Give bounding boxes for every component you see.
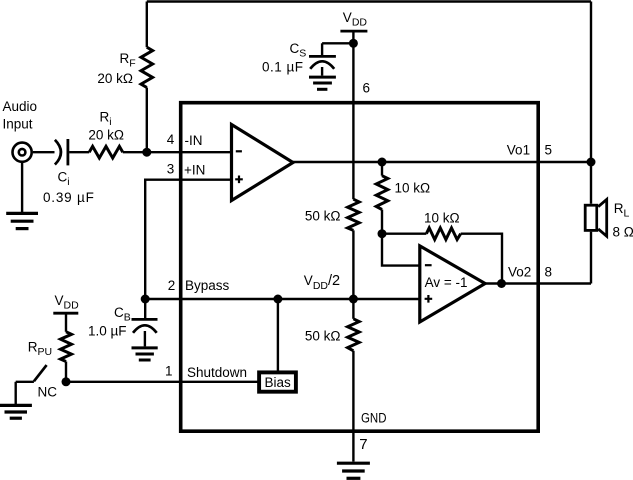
wire CS to ground [321, 67, 323, 76]
wire 10k vertical top lead [381, 162, 383, 176]
junction shutdown RPU [62, 377, 71, 386]
svg-text:Input: Input [3, 116, 33, 131]
junction Vo2 [497, 279, 506, 288]
wire 50k upper to VDD/2 node [352, 230, 354, 299]
op-amp U1 [232, 125, 294, 201]
wire audio input to Ci [33, 151, 55, 153]
wire CS tap from VDD node [322, 42, 353, 44]
wire RF bottom lead to input node [146, 88, 148, 153]
op-amp U2 Av=-1 [420, 246, 485, 322]
wire to op-amp U2 inverting input [382, 234, 420, 266]
svg-text:50 kΩ: 50 kΩ [305, 329, 341, 344]
svg-text:3: 3 [167, 162, 175, 177]
svg-text:Vo2: Vo2 [508, 264, 531, 279]
wire bypass line pin 2 [145, 298, 420, 300]
junction Vo1 right [587, 158, 596, 167]
wire CB to ground [144, 331, 146, 346]
svg-text:+IN: +IN [184, 162, 205, 177]
ground audio input [6, 213, 38, 228]
audio jack inner ring [19, 149, 26, 156]
wire +IN pin 3 to bypass node [145, 180, 231, 299]
wire Vo2 output pin 8 [485, 282, 591, 284]
resistor RPU [61, 332, 72, 362]
capacitor Ci straight plate [67, 139, 70, 165]
power VDD bar top [340, 30, 367, 33]
speaker RL body [585, 205, 597, 230]
svg-text:8 Ω: 8 Ω [613, 224, 633, 239]
svg-text:50 kΩ: 50 kΩ [305, 209, 341, 224]
wire shutdown pin 1 [66, 381, 258, 383]
svg-text:10 kΩ: 10 kΩ [395, 180, 431, 195]
svg-text:2: 2 [168, 278, 176, 293]
wire Vo2 up to speaker [590, 232, 592, 284]
wire VDD to RPU [65, 313, 67, 332]
wire switch to ground [14, 382, 16, 404]
svg-text:CS: CS [290, 41, 307, 60]
svg-text:8: 8 [545, 264, 553, 279]
wire Ri to -IN pin 4 [123, 151, 232, 153]
op-amp U2 plus mark [425, 295, 433, 303]
junction 10k feedback node [378, 229, 387, 238]
svg-text:10 kΩ: 10 kΩ [424, 210, 460, 225]
op-amp U2 minus mark [425, 264, 432, 266]
svg-text:Ri: Ri [100, 110, 112, 129]
svg-text:VDD: VDD [343, 10, 368, 29]
switch arm NC [34, 365, 47, 381]
resistor Ri [89, 146, 123, 158]
capacitor Ci curved plate [55, 140, 61, 165]
wire 10k horizontal to Vo2 node [461, 234, 502, 284]
svg-text:NC: NC [38, 385, 58, 400]
wire switch fixed contact [16, 381, 34, 383]
svg-text:RL: RL [614, 201, 630, 220]
capacitor CS curved plate [310, 61, 334, 69]
wire node to 10k horizontal [382, 232, 426, 234]
op-amp U1 minus mark [236, 150, 242, 152]
junction input node [142, 148, 151, 157]
svg-text:VDD: VDD [55, 293, 80, 312]
svg-text:VDD/2: VDD/2 [304, 273, 340, 292]
capacitor CB straight plate [132, 318, 158, 321]
capacitor CB curved plate [133, 325, 157, 333]
svg-text:Bias: Bias [265, 375, 292, 390]
svg-text:0.39 µF: 0.39 µF [43, 190, 95, 205]
resistor 50k upper [348, 199, 360, 230]
wire VDD/2 node to 50k lower [352, 299, 354, 319]
wire RPU to shutdown node [65, 362, 67, 382]
svg-text:0.1 µF: 0.1 µF [262, 60, 304, 75]
svg-text:20 kΩ: 20 kΩ [88, 127, 124, 142]
wire bias box drop from bypass [277, 299, 279, 371]
junction VDD/2 [349, 295, 358, 304]
junction VDD CS [349, 39, 358, 48]
svg-text:Bypass: Bypass [185, 278, 230, 293]
wire CS tap down [321, 43, 323, 55]
speaker RL cone [598, 199, 607, 236]
junction bypass left [141, 295, 150, 304]
ground CB [132, 348, 158, 360]
svg-text:CB: CB [114, 305, 131, 324]
wire right vertical drop to speaker [590, 2, 592, 204]
wire audio jack ground drop [21, 163, 23, 213]
Bias box [259, 372, 296, 391]
junction Vo1 10k [378, 158, 387, 167]
wire Ci to Ri [69, 151, 89, 153]
wire Vo1 output line pin 5 [293, 161, 591, 163]
svg-text:-IN: -IN [185, 133, 203, 148]
audio jack outer ring [13, 143, 32, 162]
svg-text:Audio: Audio [3, 99, 38, 114]
IC boundary box [181, 103, 539, 432]
ground switch [0, 405, 32, 418]
op-amp U1 plus mark [235, 176, 243, 184]
wire 10k vertical bottom lead [381, 210, 383, 234]
resistor 10k horizontal [426, 228, 460, 240]
wire 50k lower through GND bus to pin 7 ground [352, 351, 354, 462]
resistor 10k vertical [376, 176, 388, 210]
wire CB drop [144, 299, 146, 318]
svg-text:RPU: RPU [28, 340, 52, 359]
ground CS [309, 77, 336, 89]
wire RF top lead [146, 2, 148, 48]
svg-text:1.0 µF: 1.0 µF [88, 324, 127, 339]
svg-text:20 kΩ: 20 kΩ [97, 71, 133, 86]
wire VDD down to 50k top [352, 31, 354, 199]
resistor 50k lower [348, 319, 360, 351]
svg-text:Ci: Ci [58, 170, 70, 189]
capacitor CS straight plate [309, 55, 336, 58]
svg-text:5: 5 [545, 142, 553, 157]
svg-text:4: 4 [167, 132, 175, 147]
junction bypass bias [273, 295, 282, 304]
svg-text:6: 6 [363, 81, 371, 96]
resistor RF [141, 47, 153, 87]
power VDD bar left [53, 312, 78, 315]
svg-text:1: 1 [165, 364, 173, 379]
svg-text:Av = -1: Av = -1 [425, 275, 468, 290]
svg-text:Vo1: Vo1 [507, 143, 530, 158]
ground pin 7 [337, 463, 370, 478]
wire top feedback from RF to right side [147, 0, 591, 2]
svg-text:RF: RF [120, 51, 136, 70]
svg-text:Shutdown: Shutdown [187, 365, 247, 380]
svg-text:7: 7 [359, 436, 367, 453]
svg-text:GND: GND [361, 411, 387, 426]
